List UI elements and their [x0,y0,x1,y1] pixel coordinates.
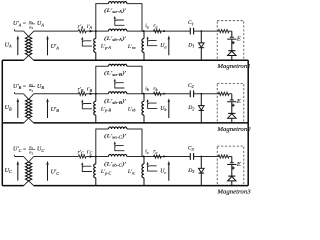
svg-text:Magnetron2: Magnetron2 [216,127,250,133]
svg-text:(L'sa-C)': (L'sa-C)' [104,132,127,139]
node at C1/D1 [200,30,202,32]
svg-text:n1: n1 [29,87,33,93]
svg-text:rc: rc [153,149,157,155]
plus sign [232,167,235,170]
svg-text:C3: C3 [188,146,194,152]
node before U_c [163,156,165,158]
voltage arrow U&#39;_A [46,35,49,55]
voltage arrow U_B [17,98,20,118]
label U&#39;_A = (n2/n1) U_A [13,19,44,30]
voltage arrow U_a [168,35,171,55]
svg-text:E: E [236,98,241,105]
inductor L&#39;rb [143,94,145,123]
node branch join [143,156,145,158]
svg-text:Ua: Ua [160,43,166,49]
plus sign [232,41,235,44]
current arrow i&#39;_A [90,30,93,33]
wire main horizontal [34,156,232,158]
transformer T1 [15,29,34,60]
capacitor C1 [190,28,193,35]
svg-text:L'p-A: L'p-A [100,44,112,50]
svg-text:(L'sb-A)': (L'sb-A)' [104,35,127,42]
resistor r_b [154,92,162,95]
wire bottom return [2,122,248,124]
svg-text:ib: ib [145,86,149,92]
node branch join [143,30,145,32]
svg-text:(L'sb-B)': (L'sb-B)' [104,98,127,105]
svg-text:(L'sb-C)': (L'sb-C)' [104,160,127,167]
svg-text:rb: rb [153,86,157,92]
svg-text:L'ra: L'ra [127,44,136,50]
svg-text:Magnetron1: Magnetron1 [216,64,250,70]
plus sign [232,104,235,107]
node at C3/D3 [200,156,202,158]
svg-text:UA: UA [37,21,44,27]
svg-text:UA: UA [5,42,12,48]
voltage arrow U_C [17,161,20,181]
svg-text:L'rc: L'rc [127,169,136,175]
svg-text:Uc: Uc [160,169,166,175]
core symbol L&#39;p [81,99,92,108]
wire upper branch [96,66,142,94]
svg-text:ic: ic [145,149,149,155]
svg-text:E: E [236,161,241,168]
inductor (L&#39;sb-A)&#39; [109,29,127,31]
label U&#39;_C = (n2/n1) U_C [13,145,44,156]
wire main horizontal [34,93,232,95]
wire to anode [231,31,233,60]
svg-text:UB: UB [37,84,44,90]
svg-text:C2: C2 [188,83,194,89]
inductor (L&#39;sa-A)&#39; [109,2,127,4]
svg-text:i'C: i'C [87,149,93,155]
core symbol L&#39;p [81,162,92,171]
left neutral rail [1,60,3,185]
svg-text:(L'sa-B)': (L'sa-B)' [104,70,127,77]
resistor r_a [154,29,162,32]
svg-text:U'A =: U'A = [13,21,27,27]
filament resistor [218,92,229,95]
magnetron2 dashed box [217,83,244,122]
voltage arrow U&#39;_B [46,98,49,118]
diode D2 [200,94,202,123]
svg-text:i'B: i'B [87,87,93,93]
inductor (L&#39;sa-B)&#39; [109,64,127,66]
node at C2/D2 [200,93,202,95]
wire bottom return [2,185,248,187]
node branch join [143,93,145,95]
current arrow i&#39;_C [90,155,93,158]
svg-text:L'rb: L'rb [127,107,136,113]
svg-text:r'C: r'C [78,149,84,155]
inductor L&#39;ra [143,31,145,60]
wire main horizontal [34,30,232,32]
filament resistor [218,30,229,33]
svg-text:r'A: r'A [78,24,84,30]
svg-text:n1: n1 [29,24,33,30]
core symbol upper [114,16,125,25]
svg-text:U'C =: U'C = [13,147,27,153]
svg-text:L'p-C: L'p-C [100,169,112,175]
svg-text:UC: UC [5,168,12,174]
svg-text:(L'sa-A)': (L'sa-A)' [104,7,127,14]
svg-text:E: E [236,35,241,42]
magnetron diode [228,113,236,118]
node after r&#39;_B [95,93,97,95]
resistor r&#39;_B [78,92,86,95]
svg-text:C1: C1 [188,20,194,26]
svg-text:ra: ra [153,23,157,29]
svg-text:i'A: i'A [87,24,93,30]
svg-text:UC: UC [37,147,44,153]
svg-text:r'B: r'B [78,87,84,93]
label U&#39;_B = (n2/n1) U_B [13,82,44,93]
current arrow i&#39;_B [90,92,93,95]
inductor (L&#39;sb-B)&#39; [109,92,127,94]
core symbol L&#39;ra [147,36,158,45]
svg-text:UB: UB [5,105,12,111]
filament resistor [218,155,229,158]
inductor L&#39;rc [143,157,145,186]
svg-text:D3: D3 [187,168,194,174]
wire upper branch [96,4,142,32]
battery E [227,163,236,165]
core symbol L&#39;rc [147,162,158,171]
svg-text:n1: n1 [29,150,33,156]
core symbol L&#39;rb [147,99,158,108]
resistor r&#39;_A [78,29,86,32]
magnetron diode [228,51,236,56]
inductor L&#39;p-C [95,157,97,186]
capacitor C3 [190,153,193,160]
voltage arrow U_A [17,35,20,55]
svg-text:U'A: U'A [51,44,60,50]
wire bottom return [2,59,248,61]
svg-text:D2: D2 [187,105,194,111]
node after r&#39;_A [95,30,97,32]
inductor L&#39;p-B [95,94,97,123]
inductor (L&#39;sb-C)&#39; [109,154,127,156]
svg-text:Ub: Ub [160,106,166,112]
svg-text:U'C: U'C [51,170,60,176]
magnetron1 dashed box [217,21,244,60]
svg-text:U'B =: U'B = [13,84,27,90]
magnetron3 dashed box [217,146,244,185]
svg-text:D1: D1 [187,42,194,48]
transformer T3 [15,155,34,186]
transformer T2 [15,92,34,123]
core symbol L&#39;p [81,37,92,46]
core symbol upper [114,141,125,150]
node after r&#39;_C [95,156,97,158]
wire upper branch [96,129,142,157]
resistor r_c [154,155,162,158]
resistor r&#39;_C [78,155,86,158]
node before U_b [163,93,165,95]
capacitor C2 [190,90,193,97]
diode D1 [200,31,202,60]
svg-text:L'p-B: L'p-B [100,106,112,112]
voltage arrow U_c [168,161,171,181]
voltage arrow U&#39;_C [46,161,49,181]
voltage arrow U_b [168,98,171,118]
core symbol upper [114,79,125,88]
battery E [227,100,236,102]
battery E [227,37,236,39]
diode D3 [200,157,202,186]
inductor L&#39;p-A [95,31,97,60]
svg-text:Magnetron3: Magnetron3 [216,190,250,196]
inductor (L&#39;sa-C)&#39; [109,127,127,129]
wire to anode [231,94,233,123]
svg-text:ia: ia [145,23,149,29]
node before U_a [163,30,165,32]
right return rail [247,60,249,185]
wire to anode [231,157,233,186]
svg-text:U'B: U'B [51,107,60,113]
magnetron diode [228,176,236,181]
